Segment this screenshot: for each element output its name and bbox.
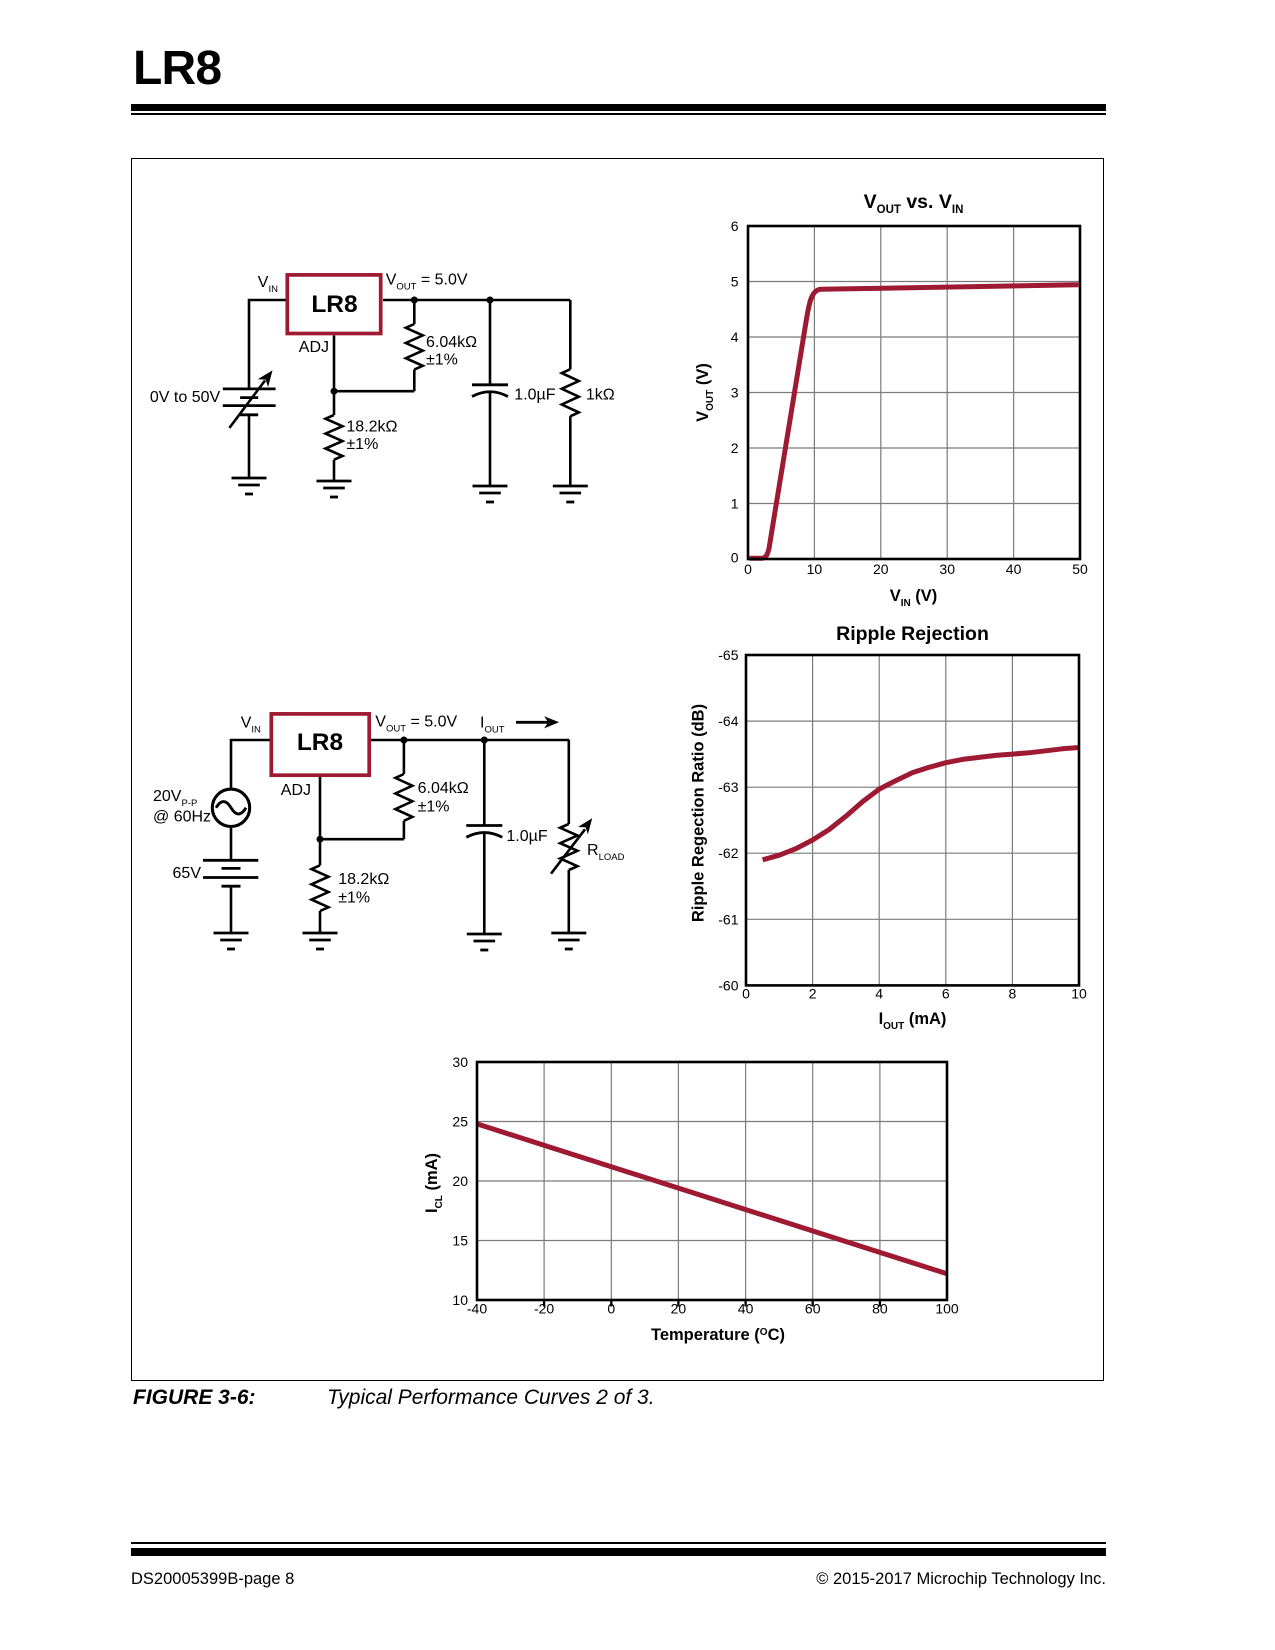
- chart 3 x tick labels: [467, 1301, 959, 1317]
- figure caption label: [133, 1386, 256, 1410]
- svg-text:8: 8: [1009, 986, 1017, 1002]
- ground under C2: [467, 934, 502, 950]
- svg-text:LR8: LR8: [311, 291, 357, 318]
- junction node C2 top: [481, 737, 488, 744]
- chart 1 curve: [750, 285, 1079, 558]
- svg-text:10: 10: [452, 1292, 468, 1308]
- svg-text:1: 1: [731, 496, 739, 512]
- svg-text:6.04kΩ: 6.04kΩ: [418, 780, 469, 797]
- chart 3 curve: [477, 1124, 947, 1274]
- svg-text:100: 100: [935, 1301, 959, 1317]
- chart 1: Vout vs Vin: [694, 191, 1088, 609]
- chart 3 x axis ticks: [544, 1300, 880, 1307]
- svg-text:RLOAD: RLOAD: [587, 842, 625, 863]
- chart 2 x tick labels: [742, 986, 1087, 1002]
- chart 1 y tick labels: [731, 218, 739, 566]
- schematic 2: ripple rejection test circuit: [153, 714, 625, 950]
- wire: U2 output rail: [371, 739, 569, 742]
- svg-text:±1%: ±1%: [418, 799, 450, 816]
- svg-text:4: 4: [875, 986, 883, 1002]
- wire: ADJ2 node to R4 bottom: [320, 838, 404, 841]
- svg-text:25: 25: [452, 1114, 468, 1130]
- header thick rule: [131, 104, 1106, 111]
- chart 2 frame: [746, 655, 1079, 985]
- IOUT direction arrow: [516, 716, 559, 728]
- svg-text:1.0µF: 1.0µF: [506, 828, 547, 845]
- svg-text:2: 2: [809, 986, 817, 1002]
- svg-text:±1%: ±1%: [426, 352, 458, 369]
- source V1 variable arrow: [229, 370, 272, 428]
- svg-text:4: 4: [731, 329, 739, 345]
- svg-text:@ 60Hz: @ 60Hz: [153, 809, 211, 826]
- svg-text:20: 20: [671, 1301, 687, 1317]
- svg-text:-40: -40: [467, 1301, 487, 1317]
- AC source V2 circle: [212, 789, 249, 826]
- svg-text:6.04kΩ: 6.04kΩ: [426, 334, 477, 351]
- svg-text:ICL (mA): ICL (mA): [423, 1153, 445, 1213]
- regulator U2 LR8: [271, 714, 369, 775]
- resistor R2 18.2k: [326, 391, 343, 481]
- junction node VOUT/R1: [411, 297, 418, 304]
- svg-text:30: 30: [452, 1054, 468, 1070]
- svg-text:Ripple Regection Ratio (dB): Ripple Regection Ratio (dB): [690, 704, 708, 922]
- svg-text:30: 30: [939, 561, 955, 577]
- wire: ADJ pin down: [319, 777, 322, 839]
- svg-text:65V: 65V: [173, 865, 202, 882]
- wire: ADJ pin down: [333, 336, 336, 392]
- svg-text:60: 60: [805, 1301, 821, 1317]
- junction node C1 top: [487, 297, 494, 304]
- header thin rule: [131, 113, 1106, 115]
- svg-text:Temperature (OC): Temperature (OC): [651, 1326, 785, 1344]
- ground under C1: [473, 486, 508, 502]
- chart 1 gridlines: [748, 226, 1080, 559]
- svg-text:80: 80: [872, 1301, 888, 1317]
- svg-text:5: 5: [731, 274, 739, 290]
- svg-text:ADJ: ADJ: [299, 339, 329, 356]
- figure caption text: [327, 1386, 655, 1410]
- chart 3: ICL vs Temperature: [423, 1054, 959, 1344]
- wire: ADJ node to R1 bottom: [334, 390, 414, 393]
- resistor R1 6.04k: [406, 300, 423, 391]
- svg-text:50: 50: [1072, 561, 1088, 577]
- svg-text:15: 15: [452, 1233, 468, 1249]
- svg-text:VOUT = 5.0V: VOUT = 5.0V: [375, 714, 457, 735]
- svg-text:18.2kΩ: 18.2kΩ: [346, 419, 397, 436]
- wire: AC source to battery: [230, 827, 233, 861]
- svg-text:±1%: ±1%: [338, 890, 370, 907]
- chart 2 y tick labels: [718, 647, 738, 993]
- svg-text:3: 3: [731, 385, 739, 401]
- chart 1 x tick labels: [744, 561, 1088, 577]
- svg-text:1.0µF: 1.0µF: [514, 387, 555, 404]
- wire: AC source to U2 VIN: [231, 740, 270, 791]
- svg-text:-63: -63: [718, 779, 738, 795]
- footer page number: [131, 1570, 294, 1589]
- wire: source to ground: [248, 415, 251, 478]
- chart 1 frame: [748, 226, 1080, 559]
- chart 3 gridlines: [477, 1062, 947, 1300]
- svg-text:18.2kΩ: 18.2kΩ: [338, 871, 389, 888]
- svg-text:6: 6: [731, 218, 739, 234]
- svg-text:VIN (V): VIN (V): [890, 587, 938, 609]
- svg-text:VOUT (V): VOUT (V): [694, 363, 716, 422]
- svg-text:0: 0: [742, 986, 750, 1002]
- svg-text:20: 20: [452, 1173, 468, 1189]
- chart 2 curve: [763, 748, 1079, 860]
- svg-text:ADJ: ADJ: [281, 782, 311, 799]
- svg-text:VIN: VIN: [241, 715, 261, 736]
- chart 2: Ripple Rejection: [690, 623, 1087, 1032]
- svg-text:40: 40: [738, 1301, 754, 1317]
- svg-text:6: 6: [942, 986, 950, 1002]
- resistor R5 18.2k: [312, 839, 329, 933]
- svg-text:VOUT = 5.0V: VOUT = 5.0V: [386, 272, 468, 293]
- svg-text:0: 0: [607, 1301, 615, 1317]
- svg-text:0: 0: [744, 561, 752, 577]
- ground under R5: [303, 933, 338, 949]
- svg-text:20: 20: [873, 561, 889, 577]
- ground under battery: [214, 933, 249, 949]
- wire: battery to ground: [230, 886, 233, 933]
- chart 2 gridlines: [746, 655, 1079, 985]
- svg-text:Ripple Rejection: Ripple Rejection: [836, 623, 989, 645]
- wire: U1 output rail: [383, 299, 570, 302]
- figure frame box: [131, 158, 1104, 1381]
- ground under R3: [553, 486, 588, 502]
- svg-text:-61: -61: [718, 911, 738, 927]
- capacitor C2 1.0uF: [466, 740, 502, 934]
- junction node VOUT/R4: [400, 737, 407, 744]
- svg-text:±1%: ±1%: [346, 436, 378, 453]
- svg-text:-62: -62: [718, 845, 738, 861]
- junction node ADJ2: [317, 836, 324, 843]
- svg-text:VOUT vs. VIN: VOUT vs. VIN: [864, 191, 964, 216]
- svg-text:IOUT: IOUT: [480, 715, 505, 736]
- svg-text:-20: -20: [534, 1301, 554, 1317]
- svg-text:10: 10: [807, 561, 823, 577]
- svg-text:-65: -65: [718, 647, 738, 663]
- svg-text:2: 2: [731, 440, 739, 456]
- footer thick rule: [131, 1548, 1106, 1556]
- RLOAD variable arrow: [551, 818, 592, 874]
- svg-text:40: 40: [1006, 561, 1022, 577]
- resistor R3 1k load: [562, 300, 579, 486]
- wire: source to U1 VIN: [249, 300, 286, 389]
- svg-text:VIN: VIN: [258, 274, 278, 295]
- ground under R2: [317, 481, 352, 497]
- footer copyright: [131, 1570, 1106, 1589]
- chart 3 y tick labels: [452, 1054, 468, 1308]
- svg-text:LR8: LR8: [297, 729, 343, 756]
- svg-text:20VP-P: 20VP-P: [153, 788, 197, 809]
- ground under R6: [551, 933, 586, 949]
- svg-text:10: 10: [1071, 986, 1087, 1002]
- battery V3 65V plates: [203, 860, 258, 886]
- regulator U1 LR8: [287, 275, 380, 334]
- svg-text:-60: -60: [718, 977, 738, 993]
- svg-text:0: 0: [731, 550, 739, 566]
- junction node ADJ: [331, 388, 338, 395]
- ground under source V1: [232, 478, 267, 494]
- svg-text:IOUT (mA): IOUT (mA): [879, 1010, 947, 1032]
- schematic 1: fixed 5V regulator test circuit: [150, 272, 615, 503]
- svg-text:0V to 50V: 0V to 50V: [150, 389, 221, 406]
- header title LR8: [133, 41, 221, 96]
- resistor R6 RLOAD: [560, 740, 577, 933]
- chart 3 frame: [477, 1062, 947, 1300]
- capacitor C1 1.0uF: [472, 300, 508, 486]
- svg-text:1kΩ: 1kΩ: [586, 387, 615, 404]
- svg-text:-64: -64: [718, 713, 738, 729]
- source V1 0-50V battery plates: [223, 389, 276, 415]
- footer thin rule: [131, 1542, 1106, 1544]
- resistor R4 6.04k: [395, 740, 412, 839]
